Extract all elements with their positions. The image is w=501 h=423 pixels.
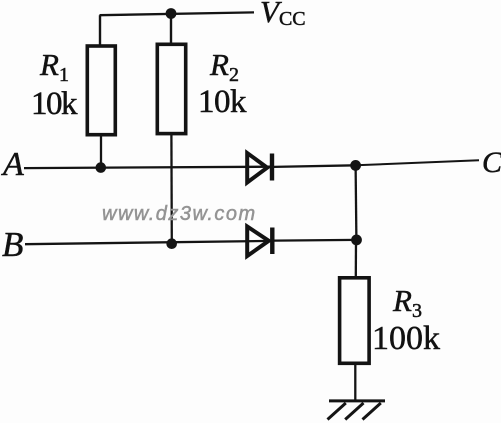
junction dot VCC node xyxy=(166,8,177,19)
wire input B xyxy=(25,241,271,244)
resistor R3 body xyxy=(340,278,370,364)
wire vertical node C to D2 node xyxy=(354,165,357,240)
label output C xyxy=(482,146,501,180)
wire R3 bottom lead xyxy=(354,365,356,402)
diode D1 triangle xyxy=(247,153,267,183)
wire R2 top lead xyxy=(170,14,172,44)
label R2 xyxy=(210,47,239,87)
label VCC xyxy=(260,0,306,31)
label R3 xyxy=(393,283,422,323)
label input A xyxy=(3,146,24,184)
diode D2 cathode bar xyxy=(270,228,274,255)
diode D1 cathode bar xyxy=(270,154,274,181)
wire R3 top lead xyxy=(355,240,358,277)
wire input A xyxy=(24,167,271,168)
resistor R1 body xyxy=(87,46,115,135)
wire D2 to node xyxy=(274,239,356,242)
label R1 xyxy=(40,47,69,87)
value 100k of R3 xyxy=(372,320,440,358)
wire D1 to node C xyxy=(274,165,356,167)
ground symbol xyxy=(328,401,386,420)
junction dot D2 output node xyxy=(351,235,362,246)
junction dot node A / R1 xyxy=(96,162,107,173)
watermark www.dz3w.com xyxy=(102,203,257,226)
wire R1 bottom lead xyxy=(100,135,102,168)
junction dot node C xyxy=(350,160,361,171)
value 10k of R1 xyxy=(31,86,76,123)
wire node C to output C xyxy=(356,160,479,165)
wire R2 bottom lead xyxy=(170,134,173,244)
junction dot node B / R2 xyxy=(166,238,177,249)
label input B xyxy=(2,225,23,265)
wire R1 top lead xyxy=(99,15,101,45)
value 10k of R2 xyxy=(198,84,246,121)
diode D2 triangle xyxy=(247,227,269,257)
wire VCC rail xyxy=(100,12,255,15)
resistor R2 body xyxy=(157,44,185,133)
